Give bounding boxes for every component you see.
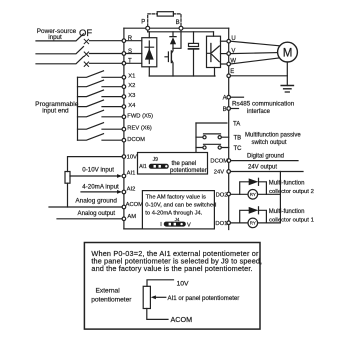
wire TA <box>196 122 240 128</box>
breaker QF pole R <box>36 34 122 44</box>
wire 4-20mA input <box>81 184 122 194</box>
motor ground <box>281 62 293 92</box>
terminal DCOM right <box>210 159 230 165</box>
relay RY1 coil <box>231 218 281 228</box>
label Multi-function collector output 1 <box>269 209 314 223</box>
flyback diode D1 <box>240 207 267 223</box>
DC bus capacitor <box>189 32 199 76</box>
terminal X1 <box>122 74 135 80</box>
braking chopper diode <box>170 32 176 49</box>
wire analog ground <box>49 197 122 207</box>
svg-text:J4: J4 <box>175 217 180 222</box>
svg-text:P: P <box>141 20 145 26</box>
enclosure bottom-left edge <box>124 228 142 230</box>
label QF <box>79 28 92 39</box>
input switch FWD <box>78 110 123 117</box>
terminal X4 <box>122 103 136 109</box>
svg-text:A: A <box>223 96 227 102</box>
svg-text:24V: 24V <box>214 170 224 176</box>
terminal R <box>122 36 133 43</box>
external speed potentiometer <box>65 157 122 207</box>
svg-text:The AM factory value is: The AM factory value is <box>146 194 206 200</box>
svg-text:Rs485 communication: Rs485 communication <box>232 101 295 108</box>
svg-text:interface: interface <box>247 109 271 115</box>
svg-text:Multi-function: Multi-function <box>269 209 305 215</box>
svg-text:OF: OF <box>79 28 92 39</box>
svg-text:REV (X6): REV (X6) <box>127 126 152 132</box>
label ACOM note <box>171 315 193 324</box>
svg-text:AI1: AI1 <box>139 164 147 170</box>
terminal U <box>221 36 236 43</box>
terminal T <box>122 59 132 66</box>
terminal AM <box>122 214 136 221</box>
terminal W <box>221 58 237 66</box>
svg-text:AI1 or panel potentiometer: AI1 or panel potentiometer <box>168 295 240 302</box>
wire B to chopper node <box>173 30 181 48</box>
input switch X2 <box>78 80 123 87</box>
terminal ACOM <box>122 202 143 209</box>
svg-text:FWD (X5): FWD (X5) <box>127 113 153 119</box>
svg-text:10V: 10V <box>127 155 137 161</box>
svg-text:E: E <box>230 69 234 75</box>
svg-text:RY: RY <box>250 221 256 226</box>
svg-text:TB: TB <box>234 136 242 142</box>
svg-text:Analog ground: Analog ground <box>75 197 117 204</box>
svg-text:DO1: DO1 <box>215 221 227 227</box>
label 10V note <box>177 280 190 287</box>
svg-text:X2: X2 <box>128 83 135 89</box>
wire analog output <box>57 210 122 219</box>
svg-text:10V: 10V <box>177 280 190 287</box>
terminal B- rs485 <box>223 107 239 113</box>
wire 0-10V input <box>70 167 122 178</box>
svg-text:Multi-function: Multi-function <box>269 181 305 187</box>
braking chopper IGBT <box>165 48 173 76</box>
input switch X3 <box>78 90 123 97</box>
wire W to motor <box>231 58 280 64</box>
terminal FWD X5 <box>122 113 153 119</box>
svg-text:DCOM: DCOM <box>127 137 145 143</box>
external potentiometer symbol <box>143 280 173 320</box>
terminal S <box>122 49 132 56</box>
label Multifunction passive switch output <box>245 133 301 147</box>
wire V to motor <box>231 53 278 54</box>
terminal DO1 <box>215 221 230 227</box>
terminal AI1 <box>122 171 135 178</box>
svg-text:potentiometer: potentiometer <box>91 297 132 304</box>
VFD enclosure top edge <box>124 27 229 29</box>
note box external potentiometer <box>84 243 262 330</box>
svg-text:DO2: DO2 <box>216 192 228 198</box>
svg-text:input: input <box>48 34 62 41</box>
label AI1 or panel potentiometer <box>168 295 240 302</box>
svg-text:X1: X1 <box>128 74 135 80</box>
svg-text:switch output: switch output <box>252 140 287 146</box>
wire U to motor <box>231 41 281 46</box>
relay contact TB <box>196 134 241 142</box>
braking resistor <box>148 12 181 27</box>
svg-text:0-10V input: 0-10V input <box>82 167 114 174</box>
svg-text:potentiometer: potentiometer <box>170 168 207 174</box>
svg-text:AM: AM <box>127 214 136 220</box>
svg-text:B: B <box>223 107 227 113</box>
terminal B <box>176 20 183 30</box>
label Programmable input end <box>35 101 79 115</box>
input switch X1 <box>78 71 123 78</box>
svg-text:B: B <box>176 20 180 26</box>
svg-text:Analog output: Analog output <box>78 210 116 217</box>
svg-text:TC: TC <box>234 146 243 152</box>
svg-text:RY: RY <box>250 192 256 197</box>
svg-text:the panel: the panel <box>172 161 197 167</box>
label External potentiometer <box>91 288 132 304</box>
terminal V <box>221 48 236 55</box>
flyback diode D2 <box>240 178 267 194</box>
svg-text:Multifunction passive: Multifunction passive <box>245 133 301 139</box>
svg-text:External: External <box>96 288 121 295</box>
terminal E <box>227 69 234 78</box>
wire T to rectifier <box>126 62 142 64</box>
svg-text:input end: input end <box>42 108 69 115</box>
svg-text:Digital ground: Digital ground <box>247 154 284 160</box>
svg-text:0-10V, and can be switched: 0-10V, and can be switched <box>145 202 216 208</box>
svg-text:M: M <box>283 47 293 60</box>
svg-text:AI2: AI2 <box>127 187 136 193</box>
svg-text:and the factory value is the p: and the factory value is the panel poten… <box>91 264 252 273</box>
terminal DO2 <box>216 192 231 198</box>
rectifier bridge <box>142 32 157 76</box>
DC bus top rail wire <box>148 31 214 33</box>
label Multi-function collector output 2 <box>269 181 314 195</box>
input switch REV <box>78 123 123 130</box>
wire relay common <box>195 123 197 153</box>
terminal 24V <box>214 170 231 176</box>
svg-text:J9: J9 <box>153 157 159 163</box>
panel potentiometer box <box>138 153 208 175</box>
input switch bus wire <box>77 77 79 140</box>
relay contact TC <box>196 144 242 152</box>
right terminal strip wire <box>228 28 230 229</box>
terminal P <box>141 20 149 32</box>
input switch DCOM <box>78 134 123 141</box>
svg-text:ACOM: ACOM <box>126 202 144 208</box>
terminal 10V <box>122 155 137 161</box>
svg-text:X4: X4 <box>128 103 136 109</box>
input switch X4 <box>78 100 123 107</box>
terminal X2 <box>122 83 135 89</box>
left terminal strip wire <box>123 28 125 229</box>
svg-text:X3: X3 <box>128 93 135 99</box>
svg-text:to 4-20mA through J4.: to 4-20mA through J4. <box>145 210 202 216</box>
terminal A+ rs485 <box>223 95 244 101</box>
wire S to rectifier <box>126 53 142 55</box>
motor M <box>278 42 298 62</box>
terminal REV X6 <box>122 126 152 132</box>
wire 24V output <box>231 164 304 171</box>
terminal X3 <box>122 93 135 99</box>
wire R to rectifier <box>126 40 142 42</box>
svg-text:TA: TA <box>233 122 240 128</box>
wire E to motor ground <box>231 75 288 77</box>
breaker QF pole T <box>36 57 122 67</box>
inverter IGBT module <box>207 32 221 76</box>
svg-text:V: V <box>187 222 191 228</box>
svg-text:collector output 1: collector output 1 <box>269 217 314 223</box>
breaker QF pole S <box>36 47 122 57</box>
terminal DCOM left <box>122 137 145 143</box>
note box AM factory value <box>142 191 216 229</box>
DC bus bottom rail wire <box>149 75 215 77</box>
label Power-source input <box>37 28 77 41</box>
svg-text:ACOM: ACOM <box>171 315 193 324</box>
wire 24V feed bus <box>279 172 281 223</box>
svg-text:4-20mA input: 4-20mA input <box>82 184 119 191</box>
terminal AI2 <box>122 187 135 194</box>
wire digital ground <box>231 154 298 161</box>
svg-text:DCOM: DCOM <box>210 159 228 165</box>
svg-text:AI1: AI1 <box>127 171 136 177</box>
relay RY2 coil <box>231 190 281 200</box>
svg-text:24V output: 24V output <box>248 164 277 170</box>
svg-text:collector output 2: collector output 2 <box>269 189 314 195</box>
label Rs485 communication interface <box>232 101 295 115</box>
